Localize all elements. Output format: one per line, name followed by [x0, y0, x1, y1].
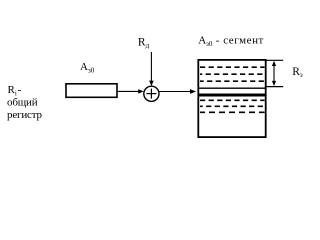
wire Rd down to adder — [150, 52, 152, 83]
register Ri box — [66, 84, 117, 98]
dashed row 2 — [200, 73, 265, 75]
dimension vertical line — [273, 63, 275, 84]
svg-text:Ri-: Ri- — [8, 84, 22, 97]
arrowhead into segment — [190, 89, 196, 94]
svg-text:Rд: Rд — [138, 36, 150, 49]
label Ri - общий регистр — [7, 84, 43, 121]
wire adder to segment — [159, 91, 191, 93]
dimension bottom tick — [267, 86, 284, 88]
wire register to adder — [118, 90, 141, 92]
label Rs — [292, 66, 303, 79]
thin solid boundary line — [198, 87, 266, 89]
svg-text:Аз0 - сегмент: Аз0 - сегмент — [198, 35, 264, 48]
segment box — [198, 60, 265, 137]
dashed row 5 — [200, 105, 265, 107]
svg-text:Rз: Rз — [292, 66, 303, 79]
thick current address line — [198, 94, 266, 97]
dashed row 1 — [200, 66, 265, 68]
adder plus sign — [146, 89, 156, 99]
arrowhead into adder left — [138, 89, 143, 94]
dashed row 4 — [200, 99, 265, 101]
dimension arrowhead down — [272, 81, 276, 86]
dimension arrowhead up — [272, 61, 276, 66]
svg-text:регистр: регистр — [7, 109, 43, 121]
label As0 - сегмент — [198, 35, 264, 48]
adder U1 circle — [144, 86, 159, 101]
arrowhead into adder top — [149, 81, 154, 86]
svg-text:Аз0: Аз0 — [80, 61, 95, 74]
label Rd — [138, 36, 150, 49]
label As0 (register) — [80, 61, 95, 74]
dimension top tick — [267, 59, 284, 61]
dashed row 6 — [200, 111, 265, 113]
dashed row 3 — [200, 80, 265, 82]
svg-text:общий: общий — [7, 97, 38, 109]
